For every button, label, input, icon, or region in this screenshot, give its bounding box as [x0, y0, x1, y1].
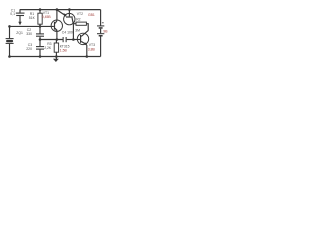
node bottom-gnd — [55, 55, 58, 58]
resistor R2 — [73, 22, 88, 31]
svg-text:2,2К: 2,2К — [44, 46, 51, 50]
capacitor C2 — [36, 26, 44, 46]
node bottom-left — [8, 55, 11, 58]
node dots — [8, 8, 88, 58]
svg-text:R2: R2 — [76, 18, 80, 22]
resistor R1 — [38, 10, 42, 26]
transistor VT1 — [51, 10, 62, 40]
svg-text:0,45В: 0,45В — [42, 15, 52, 19]
quartz resonator ZQ1 — [6, 26, 14, 56]
svg-text:ZQ1: ZQ1 — [16, 31, 23, 35]
wire emitter node horizontal right — [67, 39, 80, 41]
node rail-VT2B — [68, 8, 71, 11]
wire base node horizontal — [10, 25, 54, 27]
node base-left — [8, 25, 11, 28]
node bottom-C2 — [39, 55, 42, 58]
battery GB1 — [97, 10, 104, 57]
svg-text:С4 100: С4 100 — [62, 30, 73, 34]
svg-text:3М: 3М — [75, 28, 80, 32]
svg-text:330: 330 — [26, 32, 32, 36]
capacitor C3 — [36, 47, 44, 57]
wire emitter node horizontal left — [40, 39, 63, 41]
svg-text:3,8В: 3,8В — [88, 47, 96, 51]
svg-text:9В: 9В — [103, 29, 108, 33]
svg-text:51К: 51К — [29, 16, 35, 20]
ground common symbol — [53, 57, 59, 62]
svg-text:0,1: 0,1 — [10, 12, 15, 16]
capacitor C1 — [16, 10, 25, 25]
transistor VT3 — [77, 31, 88, 57]
wire top rail — [20, 9, 101, 11]
node emitter-C2 — [39, 38, 42, 41]
node rail-VT1C — [56, 8, 59, 11]
node VT2C-base3 — [72, 38, 75, 41]
svg-text:220: 220 — [26, 47, 32, 51]
node rail-R1 — [39, 8, 42, 11]
wire bottom rail — [10, 56, 101, 58]
svg-text:GB1: GB1 — [88, 13, 95, 17]
node base-R1 — [39, 25, 42, 28]
svg-text:1,5В: 1,5В — [60, 48, 68, 52]
resistor R3 — [54, 40, 58, 57]
node bottom-VT3E — [86, 55, 89, 58]
node emitter-R3 — [56, 38, 59, 41]
svg-text:VT2: VT2 — [77, 12, 83, 16]
capacitor C4 — [63, 37, 67, 42]
transistor VT2 — [57, 10, 75, 40]
